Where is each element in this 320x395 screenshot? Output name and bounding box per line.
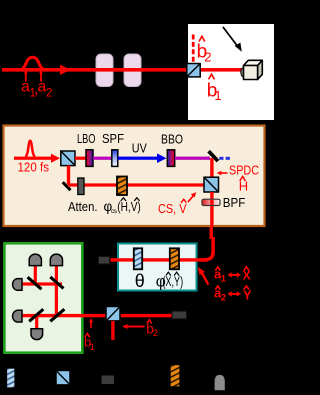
svg-text:2: 2 (46, 88, 52, 100)
label CS, V with arrow (158, 192, 196, 216)
black arrow (points to detector cube) (223, 27, 242, 52)
svg-text:2: 2 (204, 50, 211, 65)
node b2 label (bottom) with arrow (122, 320, 158, 339)
wire: below B2 (111, 321, 114, 340)
svg-text:UV: UV (132, 140, 147, 155)
wire: row1 horizontal (22, 282, 62, 285)
svg-text:Y: Y (243, 287, 252, 302)
white inset box (detection region, top right) (188, 24, 274, 120)
arrowhead on input beam (60, 65, 71, 75)
detector dome D3 (left) (13, 279, 22, 291)
svg-text:X: X (243, 269, 251, 283)
detector dome D5 (down) (31, 329, 43, 340)
wire: corner into phase box (111, 258, 208, 261)
svg-text:θ: θ (135, 271, 145, 291)
node b2 label (top) (197, 36, 212, 64)
re-draw beam over box border (111, 258, 208, 261)
label a1 <-> X (214, 267, 251, 285)
arrow hat over a1 (24, 70, 28, 82)
label a2 <-> Y (214, 286, 252, 304)
svg-text:120 fs: 120 fs (18, 160, 50, 175)
wire: BS1 down (red) (67, 166, 70, 185)
node a1,a2 label (21, 79, 52, 100)
attenuator (78, 178, 84, 195)
legend: phase plate (orange hatched) (170, 365, 180, 388)
legend: beam splitter cube (56, 371, 70, 385)
wire: BBO to mirror (magenta) (175, 157, 210, 160)
phase box (cyan) (118, 244, 197, 291)
beam splitter B1 (top) (187, 64, 200, 77)
label phi(X,Y) (156, 272, 183, 290)
filter BPF (202, 199, 220, 205)
legend: detector dome (215, 375, 225, 390)
node b1 label (top) (207, 74, 222, 103)
red arrow to phase box (198, 267, 209, 285)
svg-text:SPDC: SPDC (229, 163, 259, 178)
wire: row2 horizontal (b1 beam) (21, 314, 172, 317)
label SPDC with arrow (217, 171, 228, 175)
detector dome D2 (up) (50, 254, 62, 266)
waveplate phi(X,Y) (orange hatched) (170, 248, 179, 269)
polarizing beam splitter PBS (204, 177, 219, 192)
label H (SPDC H mode) (239, 176, 248, 193)
splitter plate BS-B (50, 277, 63, 289)
svg-text:1: 1 (221, 274, 227, 285)
waveplate phi_cs (orange hatched) (117, 177, 127, 196)
svg-text:2: 2 (221, 293, 226, 304)
mirror M2 (63, 182, 71, 190)
wire: PBS down through BPF (210, 192, 213, 227)
svg-text:H: H (239, 179, 248, 194)
waveplate (lavender) 2 (124, 54, 141, 87)
detector cube (3D box) (241, 60, 262, 79)
wire: BS1 to LBO (red) (75, 157, 87, 160)
beam splitter B2 (bottom) (106, 307, 120, 321)
wire: BS-C down to dome5 (35, 316, 38, 329)
crystal LBO (86, 150, 93, 167)
waveplate theta (blue hatched) (134, 248, 142, 269)
splitter plate BS-D (50, 309, 64, 321)
svg-text:LBO: LBO (77, 131, 96, 146)
wire: LBO to SPF (magenta) (93, 157, 112, 160)
svg-text:CS, V: CS, V (158, 201, 187, 216)
svg-text:1: 1 (214, 88, 221, 103)
detector cascade box (green) (4, 243, 82, 352)
node b1 label (bottom) with arrow (84, 318, 95, 353)
filter SPF (112, 150, 118, 167)
arrowhead pump (51, 154, 60, 163)
waveplate (lavender) 1 (96, 54, 113, 87)
svg-text:Atten.: Atten. (68, 199, 98, 214)
detector dome D1 (up) (29, 254, 41, 266)
legend: mirror/dump block (102, 376, 115, 385)
beam splitter BS1 (in orange box) (61, 151, 75, 166)
wire: main input beam a1,a2 (2, 68, 243, 72)
svg-text:1: 1 (90, 342, 95, 353)
pulse envelope (input pulse) (20, 57, 46, 69)
pump pulse into box (14, 157, 54, 160)
svg-text:(X,Y): (X,Y) (162, 274, 183, 289)
legend: waveplate (blue hatched) (7, 368, 16, 388)
wire: down from box, jog (210, 227, 213, 239)
svg-text:BPF: BPF (223, 195, 246, 210)
crystal BBO (167, 150, 174, 167)
label phi_cs(H,V) (104, 198, 141, 215)
SHG / preparation box (orange) (4, 126, 265, 227)
svg-text:SPF: SPF (102, 131, 124, 146)
beam dump (gray, bottom right) (172, 311, 187, 319)
wire: beam over waveplates (93, 68, 145, 72)
wire: lower arm to PBS (red) (68, 183, 205, 186)
svg-text:(H,V): (H,V) (117, 199, 141, 214)
detector dome D4 (left) (13, 310, 22, 322)
wire: UV beam (blue) (118, 157, 159, 160)
wire: dome1 down (34, 263, 37, 286)
wire: mirror down to PBS (red) (210, 158, 213, 178)
mirror M1 (209, 151, 218, 161)
wire: dashed output b2 (top) (192, 35, 195, 64)
pump pulse envelope (25, 141, 35, 157)
svg-text:BBO: BBO (161, 132, 183, 147)
wire: dome2 down through BS-B to row2 (55, 263, 58, 317)
svg-text:2: 2 (153, 328, 158, 339)
arrow hat over a2 (39, 70, 43, 82)
splitter plate BS-C (29, 309, 43, 321)
splitter plate BS-A (28, 277, 42, 289)
dumped UV dashes (dark blue) (219, 157, 223, 160)
beam dump (gray block, phase box input) (99, 257, 110, 265)
